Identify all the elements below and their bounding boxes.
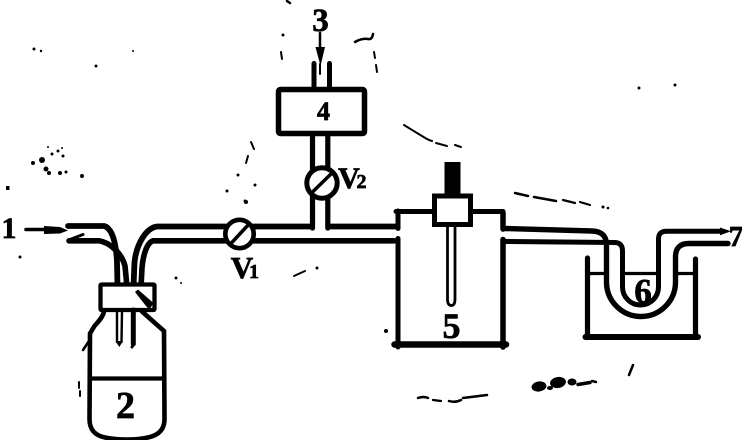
svg-text:7: 7 bbox=[729, 221, 742, 253]
svg-text:4: 4 bbox=[317, 97, 330, 126]
svg-text:3: 3 bbox=[312, 3, 329, 39]
svg-text:5: 5 bbox=[443, 306, 461, 346]
svg-text:1: 1 bbox=[249, 261, 259, 283]
svg-text:2: 2 bbox=[357, 171, 367, 193]
svg-text:2: 2 bbox=[116, 385, 135, 427]
svg-text:6: 6 bbox=[634, 272, 652, 311]
svg-text:1: 1 bbox=[2, 212, 17, 245]
